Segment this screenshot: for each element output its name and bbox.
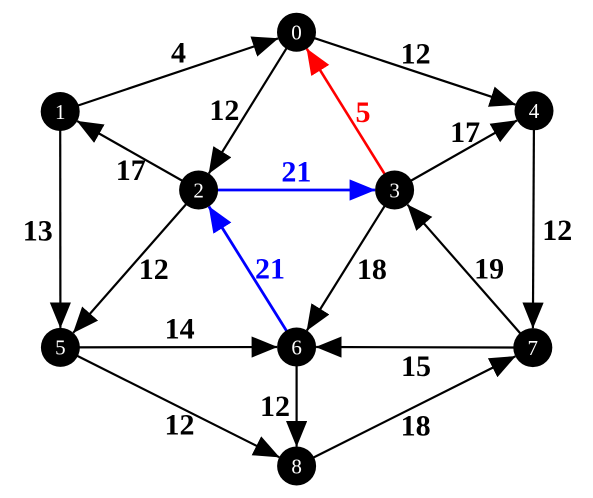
edge 3 to 6 weight 18 — [307, 190, 395, 331]
svg-text:13: 13 — [23, 214, 53, 247]
svg-text:21: 21 — [255, 253, 285, 286]
node 8 — [277, 447, 316, 486]
svg-text:2: 2 — [193, 178, 204, 202]
node 7 — [513, 328, 552, 367]
node 5 — [41, 328, 80, 367]
edge 7 to 3 weight 19 — [408, 205, 533, 348]
edge 0 to 2 weight 12 — [209, 32, 297, 173]
edge 5 to 8 weight 12 — [60, 347, 279, 457]
edge 4 to 7 weight 12 — [533, 111, 534, 328]
edge 2 to 1 weight 17 — [77, 121, 198, 190]
edge 8 to 7 weight 18 — [297, 356, 516, 466]
node 4 — [515, 91, 554, 130]
svg-text:4: 4 — [529, 99, 540, 123]
edge 2 to 3 weight 21 — [199, 189, 376, 192]
node 6 — [277, 328, 316, 367]
svg-text:12: 12 — [165, 409, 195, 442]
edge 1 to 5 weight 13 — [59, 112, 61, 328]
edge 2 to 5 weight 12 — [73, 190, 198, 333]
svg-text:19: 19 — [474, 253, 504, 286]
edge 1 to 0 weight 4 — [60, 38, 278, 111]
svg-text:12: 12 — [542, 214, 572, 247]
svg-text:12: 12 — [139, 253, 169, 286]
svg-text:12: 12 — [209, 94, 239, 127]
svg-text:0: 0 — [291, 21, 302, 45]
svg-text:5: 5 — [356, 96, 371, 129]
svg-text:12: 12 — [260, 390, 290, 423]
svg-text:18: 18 — [357, 253, 387, 286]
edge 3 to 0 weight 5 — [307, 49, 395, 190]
svg-text:1: 1 — [55, 100, 66, 124]
node 0 — [277, 13, 316, 52]
svg-text:14: 14 — [165, 313, 195, 346]
edge 6 to 8 weight 12 — [296, 347, 298, 447]
svg-text:3: 3 — [389, 178, 400, 202]
svg-text:5: 5 — [55, 336, 66, 360]
node 3 — [375, 171, 414, 210]
svg-text:7: 7 — [528, 336, 539, 360]
node 2 — [179, 171, 218, 210]
svg-text:4: 4 — [171, 37, 186, 70]
edge 6 to 2 weight 21 — [209, 207, 297, 348]
svg-text:12: 12 — [401, 37, 431, 70]
svg-text:17: 17 — [116, 154, 146, 187]
svg-text:8: 8 — [291, 454, 302, 478]
svg-text:17: 17 — [450, 116, 480, 149]
edge 3 to 4 weight 17 — [395, 120, 517, 190]
svg-text:15: 15 — [401, 350, 431, 383]
svg-text:18: 18 — [401, 410, 431, 443]
edge 7 to 6 weight 15 — [316, 346, 533, 349]
svg-text:21: 21 — [281, 155, 311, 188]
edge 0 to 4 weight 12 — [297, 32, 516, 105]
node 1 — [41, 92, 80, 131]
edge 5 to 6 weight 14 — [60, 346, 277, 349]
svg-text:6: 6 — [291, 335, 302, 359]
